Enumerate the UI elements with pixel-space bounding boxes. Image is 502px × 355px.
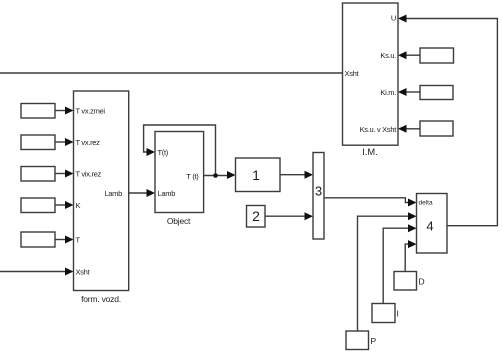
label Ks.u. pin I.M. [380,51,396,60]
source block S1 [21,104,55,119]
wire D to block 4 [405,240,416,271]
svg-text:Xsht: Xsht [76,268,91,277]
svg-text:T vix.rez: T vix.rez [76,170,102,179]
wire block 2 to mux 3 [265,212,313,220]
label 4 [426,219,433,234]
wire T(t) feedback loop [144,125,216,176]
source block S2 [21,135,55,150]
mux 3 [313,153,324,240]
svg-text:Object: Object [167,216,191,226]
block P [346,331,369,350]
svg-text:1: 1 [252,167,260,183]
svg-text:Ks.u.: Ks.u. [380,51,396,60]
svg-text:D: D [419,277,425,287]
wire source2 to form.vozd. [55,138,74,146]
svg-text:T(t): T(t) [158,148,169,157]
source block Ki.m. [420,86,453,100]
label Lamb input pin Object [158,189,176,198]
source block S5 [21,232,55,247]
wire source5 to form.vozd. [55,236,74,244]
svg-text:T: T [76,236,81,245]
svg-text:2: 2 [252,208,260,224]
subsystem form. vozd. [74,91,129,291]
wire block 1 to mux 3 [280,171,313,179]
label 1 [252,167,260,183]
svg-text:Ks.u. v Xsht: Ks.u. v Xsht [360,125,398,134]
svg-text:Lamb: Lamb [158,189,176,198]
label D [419,277,425,287]
subsystem I.M. [343,3,399,145]
svg-text:T vx.rez: T vx.rez [76,138,101,147]
label Ki.m. pin I.M. [380,88,396,97]
label 2 [252,208,260,224]
wire block 4 output to I.M. U input [398,15,497,226]
label I.M. [362,147,378,157]
svg-text:P: P [371,336,377,346]
label 3 [315,184,322,199]
wire Ks.u. v Xsht source to I.M. [398,125,420,133]
block D [394,272,417,291]
svg-text:form. vozd.: form. vozd. [81,294,121,304]
subsystem Object [155,132,204,213]
svg-text:T vx.zmei: T vx.zmei [76,107,106,116]
svg-text:I: I [397,309,399,319]
wire Object output to block 1 [204,171,236,179]
source block S3 [21,167,55,182]
wire net Xsht to form.vozd. [0,268,74,276]
wire P to block 4 [358,212,417,331]
label Lamb output pin form.vozd. [104,189,122,198]
wire source1 to form.vozd. [55,107,74,115]
label T (t) output pin Object [186,172,199,181]
label Xsht pin form.vozd. [76,268,91,277]
svg-text:delta: delta [419,200,433,207]
label Xsht output pin I.M. [345,69,360,78]
block 1 [236,158,281,192]
label Ks.u. v Xsht pin I.M. [360,125,398,134]
label T pin [76,236,81,245]
label form. vozd. [81,294,121,304]
svg-text:Lamb: Lamb [104,189,122,198]
wire source3 to form.vozd. [55,170,74,178]
label P [371,336,377,346]
wire mux 3 to block 4 delta input [324,198,417,207]
junction node T(t) [213,173,218,178]
label T vx.zmei pin [76,107,106,116]
svg-text:T (t): T (t) [186,172,199,181]
svg-text:U: U [391,14,396,23]
wire Ks.u. source to I.M. [398,51,420,59]
label delta pin block 4 [419,200,433,207]
block 4 [417,194,448,254]
wire I to block 4 [383,224,416,303]
label T vx.rez pin [76,138,101,147]
svg-text:K: K [76,201,81,210]
source block Ks.u. [420,48,454,63]
svg-text:Xsht: Xsht [345,69,360,78]
wire Lamb form.vozd. to Object [129,189,155,197]
label I [397,309,399,319]
label T(t) input pin Object [158,148,169,157]
svg-text:I.M.: I.M. [362,147,378,157]
wire source4 to form.vozd. [55,201,74,209]
wire Ki.m. source to I.M. [398,88,420,96]
svg-text:3: 3 [315,184,322,199]
label Object [167,216,191,226]
svg-text:4: 4 [426,219,433,234]
label K pin [76,201,81,210]
svg-text:Ki.m.: Ki.m. [380,88,396,97]
source block Ks.u. v Xsht [420,121,453,136]
label T vix.rez pin [76,170,102,179]
block 2 [247,206,266,228]
label U pin I.M. [391,14,396,23]
block I [372,304,395,323]
wire net Xsht to I.M. [0,72,343,74]
source block S4 [21,198,55,213]
